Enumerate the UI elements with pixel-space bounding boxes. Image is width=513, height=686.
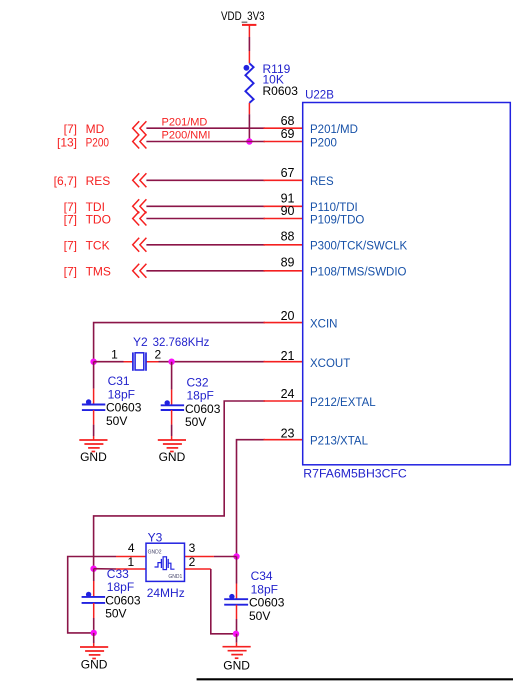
- crystal Y3: [127, 531, 195, 601]
- svg-text:50V: 50V: [249, 609, 270, 623]
- svg-text:XCIN: XCIN: [310, 318, 337, 330]
- svg-text:[7]: [7]: [64, 212, 77, 226]
- capacitor C33: [82, 567, 141, 621]
- wire crystal row right: [159, 361, 266, 363]
- wire Y3 pin3 to junction: [214, 556, 237, 558]
- svg-text:50V: 50V: [185, 415, 206, 429]
- svg-text:P201/MD: P201/MD: [162, 116, 208, 128]
- off-page connector P200: [57, 135, 146, 150]
- svg-text:90: 90: [281, 204, 295, 218]
- off-page connector TMS: [64, 264, 147, 279]
- Y3 pin2 stub: [185, 568, 211, 570]
- wire crystal row left: [94, 361, 124, 363]
- resistor R1 pin stub top: [248, 51, 250, 63]
- wire Y3 pin1 from junction: [94, 568, 116, 570]
- svg-text:C0603: C0603: [185, 402, 221, 416]
- ground G1: [79, 440, 107, 464]
- wire P212/EXTAL to Y3 pin1: [94, 401, 265, 569]
- Y3 pin3 stub: [185, 556, 214, 558]
- svg-text:[13]: [13]: [57, 135, 77, 149]
- wire C31 branch: [93, 362, 95, 389]
- resistor R1 pin stub bottom: [248, 103, 250, 114]
- off-page connector TCK: [64, 238, 147, 253]
- svg-text:P201/MD: P201/MD: [310, 124, 358, 136]
- svg-text:RES: RES: [86, 174, 111, 188]
- IC U22B pin stubs: [264, 128, 303, 440]
- power flag VDD_3V3: [221, 9, 265, 37]
- crystal Y2 pin stubs: [124, 361, 159, 363]
- svg-text:C34: C34: [251, 569, 273, 583]
- wire RES row: [146, 179, 265, 181]
- wire Y3 pin2 to C34 ground net: [211, 569, 236, 634]
- off-page connector RES: [54, 173, 147, 188]
- wire XCIN: [94, 323, 265, 362]
- node crystal right junction: [168, 359, 174, 365]
- wire P200 row: [146, 141, 265, 143]
- svg-text:P212/EXTAL: P212/EXTAL: [310, 397, 376, 409]
- wire R119 to P200 net: [248, 114, 250, 141]
- IC pin numbers: [281, 114, 295, 441]
- svg-text:P200/NMI: P200/NMI: [162, 130, 211, 142]
- svg-text:4: 4: [128, 541, 135, 555]
- svg-text:C32: C32: [187, 375, 209, 389]
- crystal Y2: [111, 335, 209, 371]
- svg-text:C0603: C0603: [105, 593, 141, 607]
- svg-text:TDO: TDO: [86, 212, 111, 226]
- svg-text:[6,7]: [6,7]: [54, 174, 77, 188]
- svg-text:67: 67: [281, 166, 295, 180]
- node Y3 pin3 junction: [233, 553, 239, 559]
- svg-text:24: 24: [281, 387, 295, 401]
- svg-text:P110/TDI: P110/TDI: [310, 202, 358, 214]
- capacitor C34: [224, 569, 284, 623]
- svg-text:C0603: C0603: [249, 596, 285, 610]
- capacitor C32: [161, 375, 221, 429]
- svg-text:P109/TDO: P109/TDO: [310, 214, 364, 226]
- svg-text:89: 89: [281, 256, 295, 270]
- node C34 ground junction: [233, 631, 239, 637]
- resistor R119: [244, 62, 299, 103]
- svg-text:[7]: [7]: [64, 122, 77, 136]
- svg-text:2: 2: [189, 555, 196, 569]
- svg-text:RES: RES: [310, 176, 334, 188]
- ground G2: [158, 440, 186, 464]
- svg-text:GND: GND: [223, 658, 250, 672]
- capacitor C31: [82, 374, 142, 428]
- svg-text:50V: 50V: [105, 607, 126, 621]
- svg-text:18pF: 18pF: [251, 582, 278, 596]
- svg-text:Y3: Y3: [148, 531, 163, 545]
- svg-text:U22B: U22B: [305, 90, 334, 102]
- svg-text:GND1: GND1: [168, 574, 182, 580]
- svg-text:P108/TMS/SWDIO: P108/TMS/SWDIO: [310, 267, 407, 279]
- svg-text:2: 2: [154, 347, 161, 361]
- svg-text:MD: MD: [86, 122, 105, 136]
- svg-text:18pF: 18pF: [187, 389, 214, 403]
- wire TDI row: [146, 205, 265, 207]
- svg-text:50V: 50V: [106, 414, 127, 428]
- svg-text:XCOUT: XCOUT: [310, 358, 350, 370]
- wire C33 branch: [93, 569, 95, 581]
- op IC U22B box: [303, 90, 511, 481]
- svg-text:TCK: TCK: [86, 239, 110, 253]
- Y3 pin1 stub: [116, 568, 146, 570]
- junction on P200/NMI row: [246, 138, 252, 144]
- svg-text:20: 20: [281, 309, 295, 323]
- svg-text:TMS: TMS: [86, 265, 111, 279]
- wire C34 branch: [236, 557, 238, 584]
- svg-text:GND: GND: [159, 450, 186, 464]
- off-page connector MD: [64, 121, 147, 136]
- svg-text:68: 68: [281, 114, 295, 128]
- wire Y3 pin4 to C33 ground net: [68, 557, 116, 633]
- svg-text:18pF: 18pF: [108, 387, 135, 401]
- svg-text:21: 21: [281, 349, 295, 363]
- svg-text:88: 88: [281, 230, 295, 244]
- wire VDD to R119: [248, 37, 250, 51]
- svg-text:3: 3: [189, 541, 196, 555]
- svg-text:GND: GND: [81, 658, 108, 672]
- off-page connector TDO: [64, 212, 147, 227]
- svg-text:[7]: [7]: [64, 239, 77, 253]
- wire TCK row: [146, 244, 265, 246]
- node C33 ground junction: [91, 630, 97, 636]
- node Y3 pin1 junction: [90, 566, 96, 572]
- svg-text:R0603: R0603: [263, 84, 299, 98]
- svg-text:18pF: 18pF: [107, 580, 134, 594]
- off-page connector TDI: [64, 199, 147, 214]
- svg-text:C33: C33: [107, 567, 129, 581]
- svg-text:P300/TCK/SWCLK: P300/TCK/SWCLK: [310, 241, 407, 253]
- title block border line: [197, 678, 513, 680]
- svg-text:23: 23: [281, 426, 295, 440]
- node XCIN/crystal left junction: [90, 359, 96, 365]
- svg-text:[7]: [7]: [64, 265, 77, 279]
- ground G4: [223, 647, 251, 673]
- svg-text:P213/XTAL: P213/XTAL: [310, 436, 369, 448]
- svg-text:P200: P200: [310, 137, 337, 149]
- svg-text:Y2: Y2: [133, 335, 148, 349]
- svg-text:GND2: GND2: [148, 549, 162, 555]
- wire MD row: [146, 127, 265, 129]
- wire C32 branch: [171, 362, 173, 390]
- Y3 pin4 stub: [116, 556, 146, 558]
- svg-text:24MHz: 24MHz: [147, 586, 185, 600]
- svg-text:1: 1: [111, 347, 118, 361]
- svg-text:C31: C31: [108, 374, 130, 388]
- wire TDO row: [146, 218, 265, 220]
- IC pin names: [310, 124, 407, 448]
- wire P213/XTAL to Y3 pin3: [237, 440, 266, 557]
- svg-text:P200: P200: [86, 135, 110, 149]
- svg-text:69: 69: [281, 127, 295, 141]
- wire TMS row: [146, 270, 265, 272]
- svg-text:C0603: C0603: [106, 401, 142, 415]
- ground G3: [80, 647, 108, 672]
- svg-text:GND: GND: [80, 450, 107, 464]
- svg-text:VDD_3V3: VDD_3V3: [221, 9, 265, 23]
- svg-text:R7FA6M5BH3CFC: R7FA6M5BH3CFC: [303, 466, 407, 480]
